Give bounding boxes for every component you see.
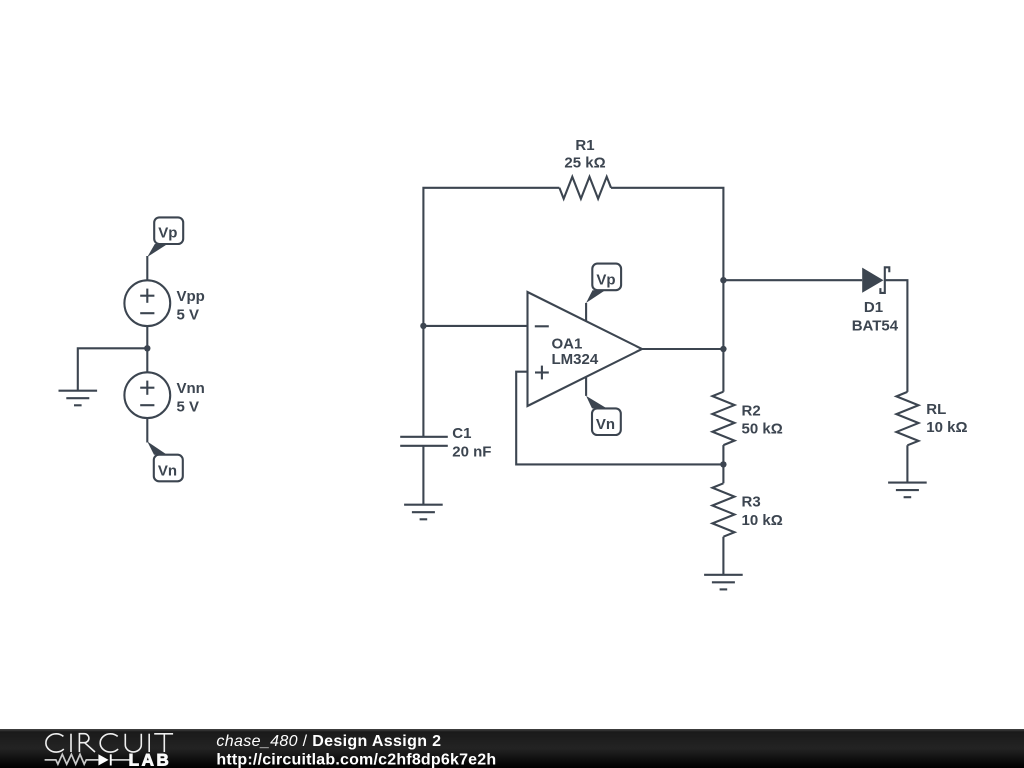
node dot diode junction (720, 277, 726, 283)
voltage source Vpp (124, 280, 204, 326)
flag Vp (left) (147, 217, 183, 257)
svg-text:Vp: Vp (158, 224, 177, 241)
footer bar (0, 729, 1024, 768)
wire node to ground (78, 348, 148, 390)
ground (R3) (704, 575, 743, 590)
capacitor C1 (400, 425, 491, 460)
wire op-amp Vp flag (585, 303, 587, 321)
svg-text:R3: R3 (742, 493, 761, 510)
svg-text:Vnn: Vnn (177, 380, 205, 397)
wire Vpp to Vnn (146, 326, 148, 372)
voltage source Vnn (124, 372, 204, 418)
svg-text:C1: C1 (452, 425, 471, 442)
wire plus input step and feedback (516, 372, 723, 465)
wire C1 to ground (422, 446, 424, 505)
op-amp OA1 (528, 292, 643, 406)
logo resistor-diode glyph (45, 754, 130, 764)
wire flag Vp to Vpp (146, 256, 148, 280)
svg-text:R2: R2 (742, 403, 761, 420)
svg-text:Vpp: Vpp (177, 288, 205, 305)
svg-text:OA1: OA1 (552, 335, 583, 352)
flag Vp (op-amp) (586, 264, 621, 303)
svg-text:R1: R1 (575, 137, 594, 154)
flag Vn (left) (147, 442, 183, 482)
svg-text:10 kΩ: 10 kΩ (742, 512, 783, 529)
svg-text:LAB: LAB (129, 750, 172, 768)
wire Vnn to flag Vn (146, 418, 148, 442)
wire op-amp output (642, 348, 723, 350)
svg-text:20 nF: 20 nF (452, 443, 491, 460)
svg-text:http://circuitlab.com/c2hf8dp6: http://circuitlab.com/c2hf8dp6k7e2h (216, 751, 496, 768)
logo diode symbol (98, 754, 111, 765)
ground (sources) (59, 391, 98, 406)
flag Vn (op-amp) (586, 396, 621, 435)
logo CIRCUIT wordmark (46, 734, 173, 752)
resistor R2 (712, 392, 782, 465)
svg-text:10 kΩ: 10 kΩ (926, 419, 967, 436)
wire to op-amp minus input (423, 325, 527, 327)
svg-text:Vp: Vp (596, 271, 615, 288)
node dot between sources (144, 345, 150, 351)
svg-text:Vn: Vn (158, 463, 177, 480)
svg-text:50 kΩ: 50 kΩ (742, 421, 783, 438)
svg-text:5 V: 5 V (177, 398, 200, 415)
svg-text:D1: D1 (864, 299, 883, 316)
svg-text:LM324: LM324 (552, 351, 599, 368)
svg-text:BAT54: BAT54 (852, 317, 899, 334)
node dot R2-R3 junction (720, 461, 726, 467)
ground (RL) (888, 483, 927, 498)
diode D1 (852, 267, 899, 334)
wire diode to RL (885, 280, 908, 392)
wire R1 left horizontal (423, 188, 559, 437)
wire R1 right horizontal (611, 188, 723, 392)
svg-text:25 kΩ: 25 kΩ (564, 155, 605, 172)
ground (C1) (404, 505, 443, 520)
node dot left rail (420, 323, 426, 329)
svg-text:Vn: Vn (596, 416, 615, 433)
svg-text:5 V: 5 V (177, 306, 200, 323)
wire op-amp Vn flag (585, 377, 587, 396)
node dot output (720, 346, 726, 352)
svg-text:chase_480 / Design Assign 2: chase_480 / Design Assign 2 (216, 733, 441, 750)
resistor RL (896, 392, 967, 483)
svg-text:RL: RL (926, 401, 946, 418)
resistor R1 (559, 137, 611, 199)
resistor R3 (712, 464, 782, 574)
wire diode branch (723, 279, 862, 281)
